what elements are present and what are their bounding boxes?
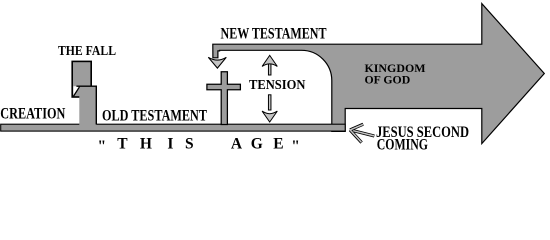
svg-text:": " bbox=[291, 138, 300, 151]
tension up arrow head bbox=[262, 55, 277, 66]
svg-text:I: I bbox=[167, 136, 173, 152]
tension down arrow head bbox=[262, 111, 277, 122]
svg-text:": " bbox=[98, 138, 107, 151]
svg-text:OLD TESTAMENT: OLD TESTAMENT bbox=[102, 108, 208, 125]
tension up arrow shaft bbox=[268, 60, 271, 75]
jesus second coming arrow bbox=[350, 124, 374, 142]
svg-text:T: T bbox=[117, 136, 128, 152]
svg-text:OF GOD: OF GOD bbox=[365, 75, 411, 87]
svg-text:NEW TESTAMENT: NEW TESTAMENT bbox=[221, 26, 328, 43]
kingdom arrow body (shaft + tail strip + head + right wall) bbox=[213, 4, 545, 144]
svg-text:KINGDOM: KINGDOM bbox=[365, 63, 426, 75]
svg-text:S: S bbox=[185, 136, 194, 152]
bent arrow head (kingdom breaking in) bbox=[208, 57, 226, 68]
timeline bar bbox=[1, 124, 346, 131]
svg-text:H: H bbox=[140, 136, 152, 152]
svg-text:THE FALL: THE FALL bbox=[58, 43, 116, 58]
the fall: wedge crack line bbox=[73, 86, 80, 96]
the fall: white wedge bbox=[73, 86, 80, 96]
label THIS AGE bbox=[98, 136, 300, 156]
cross bbox=[207, 72, 241, 125]
the fall: upper box bbox=[72, 61, 91, 97]
the fall: lower column bbox=[79, 86, 96, 125]
svg-text:COMING: COMING bbox=[377, 137, 428, 152]
tension down arrow shaft bbox=[268, 95, 271, 110]
svg-text:TENSION: TENSION bbox=[249, 77, 305, 92]
svg-text:G: G bbox=[251, 136, 263, 152]
svg-text:CREATION: CREATION bbox=[0, 106, 65, 123]
the fall: column outline (top + right) bbox=[76, 86, 96, 124]
svg-text:A: A bbox=[231, 136, 243, 152]
svg-text:E: E bbox=[273, 136, 283, 152]
